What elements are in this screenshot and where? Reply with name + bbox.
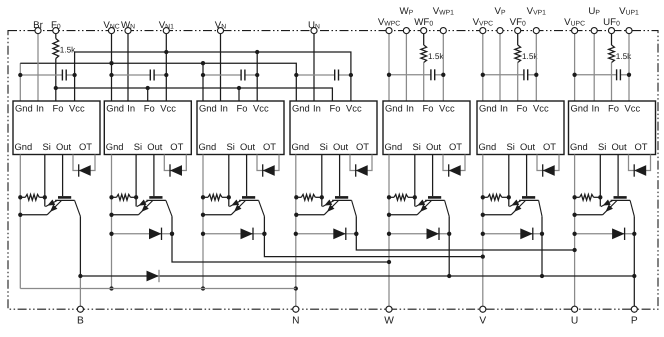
junction U6 emitter at Gnd line: [481, 213, 485, 217]
wire U6 Si to emitter-sense: [508, 197, 510, 206]
IGBT Q5 (W-high): [415, 197, 449, 216]
resistor 1.5k (F0 series): [53, 39, 76, 59]
wire F0 terminal to resistor: [55, 34, 57, 39]
terminal P: [631, 306, 637, 312]
junction driver3 cap Gnd end: [201, 73, 205, 77]
svg-text:Si: Si: [507, 141, 515, 152]
wire U4 Si to emitter-sense: [321, 197, 323, 206]
resistor (U7 gate/sense): [575, 194, 601, 200]
wire U1 Si to emitter-sense: [44, 197, 46, 206]
wire VVP1 to driver6 Vcc: [535, 34, 537, 101]
svg-text:Gnd: Gnd: [106, 102, 124, 113]
junction driver6 cap Vcc end: [534, 73, 538, 77]
svg-text:Fo: Fo: [517, 102, 528, 113]
wire U2 Si to emitter-sense: [135, 197, 137, 206]
svg-text:Vcc: Vcc: [253, 102, 269, 113]
junction U7 Si node: [598, 195, 602, 199]
wire VP to driver6 In: [499, 34, 501, 101]
junction U4 gate-return at Gnd: [294, 195, 298, 199]
wire U1 Gnd/emitter down to N rail: [19, 155, 21, 289]
resistor (U4 gate/sense): [296, 194, 322, 200]
wire VNC to driver2 Gnd: [111, 34, 113, 101]
diode (freewheel W-high): [427, 228, 440, 240]
wire U7 Out pin to gate: [617, 155, 619, 197]
wire U1 OT bracket: [73, 155, 95, 171]
wire VN to driver3 In: [220, 34, 222, 101]
junction U7 gate-return at Gnd: [572, 195, 576, 199]
wire U4 Si pin: [321, 155, 323, 198]
junction freewheel anode node: [201, 232, 205, 236]
junction U6 Si node: [507, 195, 511, 199]
wire U5 Si pin: [414, 155, 416, 198]
wire U5 Gnd/emitter (phase W) down to terminal W: [388, 155, 390, 310]
junction freewheel cathode node: [540, 232, 544, 236]
svg-text:Gnd: Gnd: [15, 102, 33, 113]
svg-text:Gnd: Gnd: [292, 102, 310, 113]
wire VVPC to driver6 Gnd: [482, 34, 484, 101]
junction freewheel anode node: [294, 232, 298, 236]
junction VNC on Gnd bus: [109, 61, 113, 65]
wire UF0 to resistor: [611, 34, 613, 45]
svg-text:Si: Si: [320, 141, 328, 152]
svg-text:In: In: [313, 102, 321, 113]
junction driver6 cap Gnd end: [481, 73, 485, 77]
wire U3 OT bracket: [257, 155, 279, 171]
resistor 1.5k (driver7 Fo series): [609, 45, 633, 63]
resistor 1.5k (driver5 Fo series): [421, 45, 445, 63]
driver IC U3 (V-low gate driver): [197, 101, 284, 155]
junction U2 gate-return at Gnd: [109, 195, 113, 199]
terminal VUP1: [626, 28, 632, 34]
wire U2 Si pin: [135, 155, 137, 198]
svg-text:Fo: Fo: [237, 102, 248, 113]
wire Br to driver1 In: [37, 34, 39, 101]
diode (U3 OT sense): [263, 164, 275, 176]
svg-text:N: N: [292, 316, 299, 327]
terminal VWPC: [386, 28, 392, 34]
svg-text:In: In: [592, 102, 600, 113]
diode (U1 OT sense): [79, 164, 91, 176]
junction Q5 collector at P rail: [447, 274, 451, 278]
svg-text:OT: OT: [263, 141, 276, 152]
wire driver2 Fo pin to F0 bus: [147, 88, 149, 101]
wire U3 Si pin: [228, 155, 230, 198]
wire N rail left riser: [19, 288, 21, 290]
wire N rail: [20, 288, 296, 290]
junction driver5 cap Vcc end: [441, 73, 445, 77]
svg-text:OT: OT: [170, 141, 183, 152]
wire U5 Si to emitter-sense: [414, 197, 416, 206]
junction U4 emitter at Gnd line: [294, 213, 298, 217]
IGBT Q7 (U-high): [601, 197, 634, 216]
wire VF0 to resistor: [517, 34, 519, 45]
junction U1 emitter at Gnd line: [18, 213, 22, 217]
terminal VP: [497, 28, 503, 34]
wire VN1 to driver2 Vcc: [165, 34, 167, 101]
terminal WF0: [421, 28, 427, 34]
diode (freewheel V-high): [520, 228, 533, 240]
driver IC U7 (U-high gate driver): [569, 101, 656, 155]
wire freewheel diode V-high: [483, 233, 542, 235]
wire U1 emitter return: [20, 214, 47, 216]
driver IC U1 (brake gate driver): [13, 101, 100, 155]
junction U5 emitter at Gnd line: [387, 213, 391, 217]
terminal VN label: [215, 20, 226, 31]
terminal VN1: [163, 28, 169, 34]
wire U1 Si pin: [44, 155, 46, 198]
junction U2 emitter at Gnd line: [109, 213, 113, 217]
resistor 1.5k (driver6 Fo series): [515, 45, 539, 63]
wire Q7 collector to terminal P: [633, 216, 635, 309]
junction U3 emitter at Gnd line: [201, 213, 205, 217]
terminal WN label: [121, 20, 135, 31]
terminal VP label: [494, 6, 505, 17]
svg-text:Si: Si: [413, 141, 421, 152]
junction B node at brake diode: [78, 274, 82, 278]
junction U3 Gnd at N rail: [201, 286, 205, 290]
wire WF0 to resistor: [423, 34, 425, 45]
wire U7 Si pin: [599, 155, 601, 198]
driver IC U2 (W-low gate driver): [104, 101, 191, 155]
IGBT Q6 (V-high): [509, 197, 542, 216]
terminal N: [293, 306, 299, 312]
junction U4 Gnd at N rail: [294, 286, 298, 290]
junction U2 Gnd at N rail: [109, 286, 113, 290]
terminal UN: [311, 28, 317, 34]
wire U3 emitter return: [203, 214, 231, 216]
junction V line at V vertical: [481, 254, 485, 258]
terminal WP: [403, 28, 409, 34]
svg-text:OT: OT: [635, 141, 648, 152]
terminal VNC: [108, 28, 114, 34]
wire U5 emitter return: [389, 214, 417, 216]
diode (freewheel V-low): [241, 228, 254, 240]
terminal Br label: [33, 20, 43, 31]
wire P rail (brake diode to P): [80, 275, 634, 277]
wire VUPC to driver7 Gnd: [574, 34, 576, 101]
svg-text:P: P: [631, 316, 638, 327]
wire U7 OT bracket: [629, 155, 651, 171]
svg-text:1.5k: 1.5k: [60, 46, 76, 55]
svg-text:Fo: Fo: [53, 102, 64, 113]
resistor (U1 gate/sense): [20, 194, 45, 200]
capacitor (driver5 Vcc-Gnd): [389, 69, 443, 80]
IGBT Q1 (brake): [45, 197, 80, 216]
diode (freewheel U-high): [612, 228, 625, 240]
junction driver7 cap Vcc end: [627, 73, 631, 77]
svg-text:Si: Si: [43, 141, 51, 152]
terminal N label: [292, 316, 299, 327]
diode (U2 OT sense): [170, 164, 182, 176]
resistor (U3 gate/sense): [203, 194, 229, 200]
wire driver3 Gnd pin to Gnd bus: [202, 63, 204, 101]
wire U2 OT bracket: [164, 155, 186, 171]
terminal VVPC: [480, 28, 486, 34]
terminal VVPC label: [473, 17, 494, 28]
wire freewheel diode W-low: [112, 233, 173, 235]
svg-text:W: W: [384, 316, 394, 327]
terminal V label: [479, 316, 486, 327]
svg-text:In: In: [220, 102, 228, 113]
wire resistor to driver1 Fo pin: [55, 59, 57, 102]
wire U3 Out pin to gate: [246, 155, 248, 197]
terminal UP label: [588, 6, 600, 17]
svg-text:OT: OT: [356, 141, 369, 152]
driver IC U5 (W-high gate driver): [383, 101, 470, 155]
capacitor (driver7 Vcc-Gnd): [575, 69, 629, 80]
wire freewheel diode U-high: [575, 233, 635, 235]
terminal VN: [217, 28, 223, 34]
svg-text:B: B: [77, 316, 84, 327]
svg-text:Out: Out: [56, 141, 72, 152]
terminal P label: [631, 316, 638, 327]
capacitor (driver1 Vcc-Gnd): [20, 70, 74, 81]
wire U4 emitter return: [296, 214, 324, 216]
diode (U4 OT sense): [356, 164, 368, 176]
junction driver3 Fo on F0 bus: [237, 86, 241, 90]
svg-text:Vcc: Vcc: [625, 102, 641, 113]
terminal B label: [77, 316, 84, 327]
wire VWPC to driver5 Gnd: [388, 34, 390, 101]
svg-text:Fo: Fo: [608, 102, 619, 113]
wire U3 Si to emitter-sense: [228, 197, 230, 206]
svg-text:Si: Si: [134, 141, 142, 152]
junction Q4 collector at freewheel: [354, 232, 358, 236]
wire F0 fault bus (N-side): [56, 88, 333, 101]
svg-text:In: In: [127, 102, 135, 113]
svg-text:Out: Out: [147, 141, 163, 152]
svg-text:Gnd: Gnd: [571, 102, 589, 113]
wire brake diode node to terminal B: [79, 276, 81, 309]
junction driver4 cap Gnd end: [294, 73, 298, 77]
terminal UF0 label: [603, 17, 620, 28]
junction driver3 cap Vcc end: [255, 73, 259, 77]
junction U1 gate-return at Gnd: [18, 195, 22, 199]
svg-text:Out: Out: [520, 141, 536, 152]
diode (brake, B to P): [147, 270, 160, 282]
junction driver3 Vcc on Vcc bus: [255, 50, 259, 54]
terminal VN1 label: [159, 20, 174, 31]
wire U3 Gnd/emitter down to N rail: [202, 155, 204, 289]
wire U7 Si to emitter-sense: [599, 197, 601, 206]
svg-text:Fo: Fo: [144, 102, 155, 113]
svg-text:Vcc: Vcc: [160, 102, 176, 113]
junction Q6 collector at P rail: [540, 274, 544, 278]
svg-text:V: V: [479, 316, 486, 327]
wire U2 Gnd/emitter down to N rail: [111, 155, 113, 289]
wire resistor to driver6 Fo pin: [517, 63, 519, 102]
svg-text:Gnd: Gnd: [106, 141, 124, 152]
terminal B: [77, 306, 83, 312]
IGBT Q3 (V-low): [229, 197, 264, 216]
junction U2 Si node: [134, 195, 138, 199]
svg-text:OT: OT: [79, 141, 92, 152]
wire Q2 collector to W line: [172, 216, 389, 262]
wire U6 Gnd/emitter (phase V) down to terminal V: [482, 155, 484, 310]
wire Q1 collector to brake diode node: [79, 216, 81, 276]
junction U5 gate-return at Gnd: [387, 195, 391, 199]
capacitor (driver6 Vcc-Gnd): [483, 69, 537, 80]
terminal V: [480, 306, 486, 312]
wire U5 Out pin to gate: [432, 155, 434, 197]
terminal VWP1: [440, 28, 446, 34]
wire Q4 collector to U line: [356, 216, 574, 250]
wire VUP1 to driver7 Vcc: [628, 34, 630, 101]
junction Q2 collector at freewheel: [170, 232, 174, 236]
junction freewheel cathode node: [447, 232, 451, 236]
junction Q7 collector at P rail: [632, 274, 636, 278]
wire U4 OT bracket: [350, 155, 372, 171]
svg-text:Fo: Fo: [330, 102, 341, 113]
svg-text:Gnd: Gnd: [385, 141, 403, 152]
junction driver2 cap Vcc end: [164, 73, 168, 77]
terminal VWP1 label: [433, 6, 454, 17]
wire U7 Gnd/emitter (phase U) down to terminal U: [574, 155, 576, 310]
wire U6 emitter return: [483, 214, 511, 216]
junction freewheel cathode node: [632, 232, 636, 236]
wire U6 Si pin: [508, 155, 510, 198]
svg-text:Vcc: Vcc: [533, 102, 549, 113]
diode (U7 OT sense): [634, 164, 646, 176]
wire U5 OT bracket: [443, 155, 465, 171]
terminal WN: [125, 28, 131, 34]
terminal VF0: [515, 28, 521, 34]
svg-text:Gnd: Gnd: [570, 141, 588, 152]
svg-text:Gnd: Gnd: [479, 141, 497, 152]
terminal UP: [591, 28, 597, 34]
wire U4 Out pin to gate: [339, 155, 341, 197]
terminal VUP1 label: [619, 6, 639, 17]
svg-text:Gnd: Gnd: [199, 102, 217, 113]
svg-text:Gnd: Gnd: [385, 102, 403, 113]
wire Gnd bus (N-side, VNC rail): [20, 63, 296, 101]
wire freewheel diode V-low: [203, 233, 264, 235]
junction U6 gate-return at Gnd: [481, 195, 485, 199]
wire U6 OT bracket: [537, 155, 559, 171]
resistor (U5 gate/sense): [389, 194, 415, 200]
svg-text:Si: Si: [227, 141, 235, 152]
svg-text:In: In: [36, 102, 44, 113]
wire U4 Gnd/emitter down to terminal N: [295, 155, 297, 310]
driver IC U6 (V-high gate driver): [477, 101, 564, 155]
diode (freewheel W-low): [149, 228, 162, 240]
junction driver5 cap Gnd end: [387, 73, 391, 77]
capacitor (driver2 Vcc-Gnd): [112, 70, 167, 81]
diode (U6 OT sense): [543, 164, 555, 176]
junction freewheel cathode node: [262, 232, 266, 236]
svg-text:Gnd: Gnd: [479, 102, 497, 113]
svg-text:Vcc: Vcc: [439, 102, 455, 113]
wire Q5 collector to P rail: [448, 216, 450, 276]
junction freewheel cathode node: [170, 232, 174, 236]
wire driver3 Fo pin to F0 bus: [238, 88, 240, 101]
terminal VUPC label: [564, 17, 585, 28]
junction Q3 collector at freewheel: [262, 232, 266, 236]
svg-text:Si: Si: [598, 141, 606, 152]
junction freewheel anode node: [387, 232, 391, 236]
junction driver3 Gnd on Gnd bus: [201, 61, 205, 65]
svg-text:U: U: [571, 316, 578, 327]
terminal VVP1: [533, 28, 539, 34]
svg-text:Out: Out: [612, 141, 628, 152]
diode (U5 OT sense): [449, 164, 461, 176]
svg-text:Out: Out: [240, 141, 256, 152]
junction VN1 on Vcc bus: [164, 50, 168, 54]
wire WP to driver5 In: [405, 34, 407, 101]
terminal VF0 label: [510, 17, 526, 28]
terminal VNC label: [103, 20, 119, 31]
terminal F0 label: [51, 20, 61, 31]
junction driver2 cap Gnd end: [109, 73, 113, 77]
junction driver2 Fo on F0 bus: [146, 86, 150, 90]
junction freewheel anode node: [481, 232, 485, 236]
svg-text:Gnd: Gnd: [199, 141, 217, 152]
terminal W label: [384, 316, 394, 327]
terminal VVP1 label: [527, 6, 547, 17]
terminal U label: [571, 316, 578, 327]
terminal U: [572, 306, 578, 312]
wire Q6 collector to P rail: [541, 216, 543, 276]
capacitor (driver4 Vcc-Gnd): [296, 70, 351, 81]
terminal UF0: [608, 28, 614, 34]
junction U line at U vertical: [572, 248, 576, 252]
svg-text:OT: OT: [543, 141, 556, 152]
junction U7 emitter at Gnd line: [572, 213, 576, 217]
terminal VUPC: [572, 28, 578, 34]
wire resistor to driver5 Fo pin: [423, 63, 425, 102]
wire U6 Out pin to gate: [526, 155, 528, 197]
wire resistor to driver7 Fo pin: [611, 63, 613, 102]
IGBT Q2 (W-low): [137, 197, 172, 216]
svg-text:Vcc: Vcc: [69, 102, 85, 113]
junction U1 Si node: [43, 195, 47, 199]
svg-text:Gnd: Gnd: [15, 141, 33, 152]
junction freewheel anode node: [109, 232, 113, 236]
wire freewheel diode U-low: [296, 233, 357, 235]
terminal VWPC label: [378, 17, 400, 28]
junction driver4 cap Vcc end: [349, 73, 353, 77]
junction U3 Si node: [227, 195, 231, 199]
IGBT Q4 (U-low): [322, 197, 356, 216]
wire U7 emitter return: [575, 214, 603, 216]
resistor (U2 gate/sense): [112, 194, 137, 200]
wire Q3 collector to V line: [264, 216, 482, 256]
junction U4 Si node: [320, 195, 324, 199]
wire driver3 Vcc pin to Vcc bus: [256, 52, 258, 101]
svg-text:Gnd: Gnd: [292, 141, 310, 152]
terminal Br: [35, 28, 41, 34]
junction U3 gate-return at Gnd: [201, 195, 205, 199]
svg-text:Out: Out: [333, 141, 349, 152]
driver IC U4 (U-low gate driver): [290, 101, 377, 155]
svg-text:Fo: Fo: [423, 102, 434, 113]
junction freewheel cathode node: [354, 232, 358, 236]
wire U2 emitter return: [112, 214, 139, 216]
junction freewheel anode node: [572, 232, 576, 236]
wire VWP1 to driver5 Vcc: [442, 34, 444, 101]
terminal UN label: [308, 20, 320, 31]
diode (freewheel U-low): [333, 228, 346, 240]
junction driver1 Fo on F0 bus: [54, 86, 58, 90]
wire Vcc bus (N-side, VN1 supply rail): [75, 52, 351, 101]
terminal WF0 label: [414, 17, 433, 28]
terminal W: [386, 306, 392, 312]
svg-text:In: In: [500, 102, 508, 113]
wire U2 Out pin to gate: [153, 155, 155, 197]
capacitor (driver3 Vcc-Gnd): [203, 70, 257, 81]
svg-text:1.5k: 1.5k: [428, 52, 444, 61]
wire UP to driver7 In: [593, 34, 595, 101]
